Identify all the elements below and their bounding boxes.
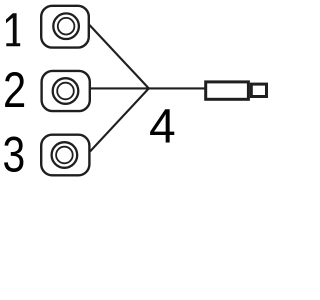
electrode E3 snap outer ring bbox=[52, 142, 78, 168]
wire E3 to node 4 bbox=[90, 88, 149, 151]
wire E2 to node 4 bbox=[90, 87, 149, 89]
svg-text:4: 4 bbox=[149, 100, 176, 153]
wire node 4 to connector bbox=[149, 87, 206, 89]
electrode E1 pad bbox=[41, 6, 89, 48]
label 1 bbox=[6, 13, 20, 46]
connector plug body bbox=[206, 82, 249, 99]
electrode E2 snap inner ring bbox=[57, 83, 74, 100]
electrode E1 snap outer ring bbox=[53, 13, 79, 39]
electrode E3 snap inner ring bbox=[56, 147, 73, 164]
electrode E1 snap inner ring bbox=[58, 18, 75, 35]
wire E1 to node 4 bbox=[90, 25, 149, 88]
svg-text:2: 2 bbox=[3, 62, 26, 118]
electrode E2 pad bbox=[42, 71, 90, 111]
svg-text:3: 3 bbox=[3, 127, 26, 183]
electrode E2 snap outer ring bbox=[53, 78, 79, 104]
connector plug tip bbox=[251, 84, 266, 96]
electrode E3 pad bbox=[41, 135, 89, 176]
